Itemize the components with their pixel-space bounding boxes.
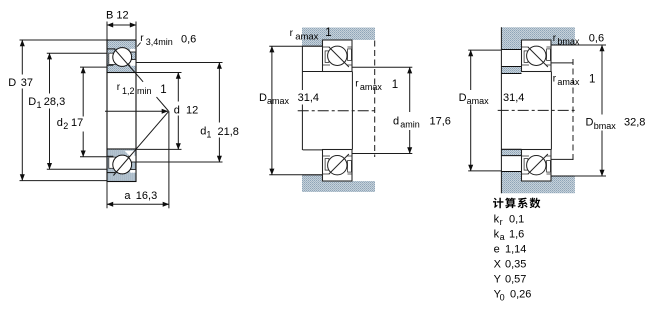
svg-text:17: 17 (71, 117, 83, 129)
svg-text:d: d (57, 117, 63, 129)
svg-text:1: 1 (589, 74, 595, 86)
svg-text:amin: amin (400, 120, 420, 130)
svg-text:e: e (494, 244, 500, 256)
svg-text:31,4: 31,4 (503, 92, 524, 104)
svg-text:1: 1 (206, 129, 211, 139)
svg-text:1,2 min: 1,2 min (122, 86, 152, 96)
svg-text:37: 37 (21, 77, 33, 89)
svg-text:amax: amax (295, 32, 318, 43)
svg-text:Y: Y (494, 274, 502, 286)
svg-text:12: 12 (186, 105, 198, 117)
svg-text:0,26: 0,26 (510, 289, 531, 301)
svg-text:amax: amax (467, 96, 490, 106)
svg-text:0,6: 0,6 (589, 32, 604, 44)
svg-text:d: d (174, 105, 180, 117)
svg-text:16,3: 16,3 (136, 190, 157, 202)
svg-text:1: 1 (392, 79, 398, 91)
svg-text:2: 2 (63, 121, 68, 131)
svg-text:3,4min: 3,4min (146, 37, 173, 47)
svg-text:0: 0 (500, 292, 505, 302)
svg-text:31,4: 31,4 (298, 92, 319, 104)
svg-text:B 12: B 12 (106, 10, 129, 22)
svg-text:D: D (28, 96, 36, 108)
svg-text:bmax: bmax (594, 121, 617, 131)
svg-text:0,1: 0,1 (509, 214, 524, 226)
svg-text:28,3: 28,3 (44, 96, 65, 108)
svg-text:d: d (393, 115, 399, 127)
svg-text:D: D (259, 92, 267, 104)
svg-text:17,6: 17,6 (430, 116, 451, 128)
svg-text:amax: amax (267, 96, 290, 106)
svg-text:bmax: bmax (557, 36, 580, 46)
svg-text:a: a (500, 232, 505, 242)
svg-text:1,14: 1,14 (505, 244, 526, 256)
svg-text:D: D (8, 77, 16, 89)
svg-text:21,8: 21,8 (218, 126, 239, 138)
svg-text:32,8: 32,8 (624, 117, 645, 129)
svg-text:1,6: 1,6 (509, 229, 524, 241)
svg-text:0,35: 0,35 (505, 259, 526, 271)
svg-text:0,6: 0,6 (181, 34, 196, 46)
svg-text:X: X (494, 259, 502, 271)
svg-text:amax: amax (360, 82, 383, 92)
svg-text:D: D (459, 92, 467, 104)
svg-text:1: 1 (325, 27, 331, 39)
svg-text:1: 1 (37, 100, 42, 110)
svg-text:r: r (500, 217, 503, 227)
svg-text:0,57: 0,57 (505, 274, 526, 286)
svg-text:a: a (124, 190, 131, 202)
svg-text:D: D (586, 117, 594, 129)
svg-text:amax: amax (557, 77, 580, 87)
svg-text:1: 1 (160, 84, 166, 96)
